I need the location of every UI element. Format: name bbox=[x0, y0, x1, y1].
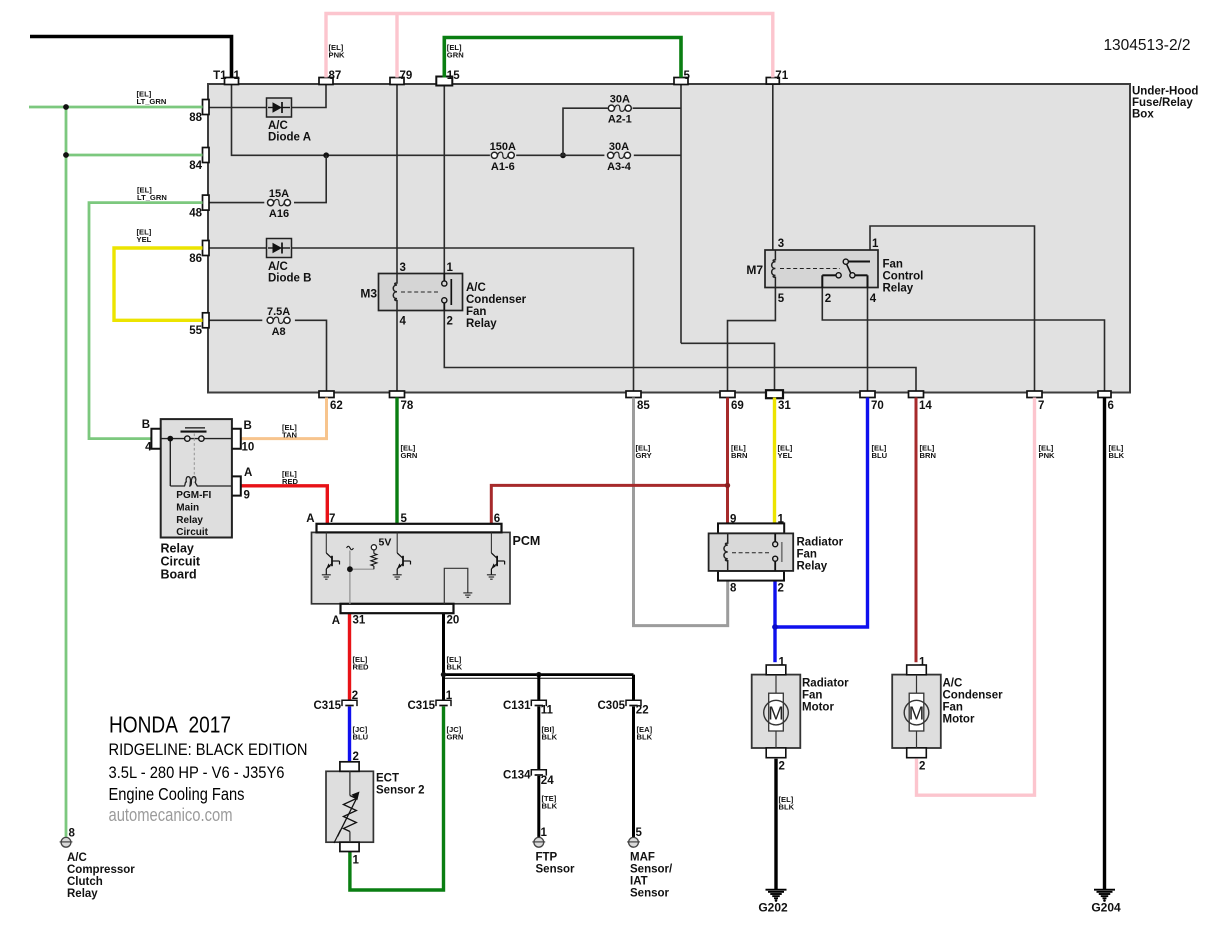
terminal B/10 of relay board bbox=[232, 429, 241, 449]
connector C305 bbox=[626, 700, 641, 706]
connector C131 bbox=[531, 700, 546, 706]
wire: terminal 15 down to relay M3 pin 1 bbox=[443, 85, 445, 274]
node: brown junction at (727.5,485.4) bbox=[725, 483, 730, 488]
wire: fuse A2-1 to pin-5 vertical bbox=[633, 107, 681, 109]
terminal 31 bbox=[766, 390, 783, 398]
svg-text:Sensor/: Sensor/ bbox=[630, 864, 673, 876]
connector C315 (ECT signal side) bbox=[342, 700, 357, 706]
wire: tan relay board pin 10 up to terminal 62 bbox=[241, 398, 327, 439]
wire: pink terminal 7 down to A/C condenser fan motor pin 2 bbox=[917, 398, 1035, 796]
svg-text:79: 79 bbox=[400, 70, 413, 82]
A/C Diode B bbox=[267, 239, 292, 258]
fuse A8 7.5A bbox=[267, 317, 273, 323]
svg-text:Fuse/Relay: Fuse/Relay bbox=[1132, 97, 1193, 109]
wire: black C305 down to MAF sensor bbox=[632, 707, 635, 838]
terminal 71 bbox=[766, 78, 779, 85]
svg-text:Engine Cooling Fans: Engine Cooling Fans bbox=[109, 784, 245, 804]
svg-text:Radiator: Radiator bbox=[797, 537, 844, 549]
wire: fuse A8 right and down to terminal 62 bbox=[295, 320, 327, 391]
svg-text:4: 4 bbox=[145, 442, 152, 454]
label A/C Compressor Clutch Relay bbox=[67, 852, 135, 900]
terminal ring: A/C Compressor Clutch Relay bbox=[61, 837, 71, 847]
wire: red PCM pin A31 down to connector C315 pin 2 bbox=[348, 614, 351, 701]
fuse A2-1 30A bbox=[608, 105, 614, 111]
svg-text:Relay: Relay bbox=[67, 888, 98, 900]
node: black junction at (443.5,674.6) bbox=[441, 672, 446, 677]
svg-text:automecanico.com: automecanico.com bbox=[109, 805, 233, 825]
node: light green junction at (66,107) bbox=[63, 104, 69, 110]
svg-text:5: 5 bbox=[778, 293, 785, 305]
svg-text:Board: Board bbox=[161, 568, 197, 582]
terminal 84 bbox=[203, 148, 210, 163]
svg-text:4: 4 bbox=[400, 316, 407, 328]
svg-text:C134: C134 bbox=[503, 770, 531, 782]
svg-text:Control: Control bbox=[883, 271, 924, 283]
terminal 6 bbox=[1098, 391, 1111, 398]
svg-text:1: 1 bbox=[446, 690, 453, 702]
terminal ring: FTP Sensor bbox=[534, 837, 544, 847]
svg-text:20: 20 bbox=[447, 615, 460, 627]
wire: brown PCM pin 6 up and right to node bbox=[491, 485, 727, 524]
label PGM-FI Main Relay Circuit bbox=[176, 490, 211, 538]
svg-text:2: 2 bbox=[778, 583, 784, 595]
svg-text:A/C: A/C bbox=[268, 261, 288, 273]
svg-text:Motor: Motor bbox=[802, 702, 834, 714]
svg-text:C131: C131 bbox=[503, 700, 531, 712]
svg-text:85: 85 bbox=[637, 400, 650, 412]
fuse A16 15A bbox=[268, 200, 274, 206]
svg-text:15: 15 bbox=[447, 70, 460, 82]
svg-text:T1: T1 bbox=[213, 70, 227, 82]
svg-text:Relay: Relay bbox=[466, 318, 497, 330]
connector C134 bbox=[531, 770, 546, 776]
wire: black C134 down to FTP sensor bbox=[537, 776, 540, 838]
svg-text:14: 14 bbox=[919, 400, 932, 412]
transistor Q3 inside PCM (pin 6 driver) bbox=[487, 532, 505, 579]
label Under-Hood Fuse/Relay Box bbox=[1132, 86, 1198, 121]
wire: junction down to fuse A16 bbox=[294, 155, 326, 202]
svg-text:FTP: FTP bbox=[536, 852, 558, 864]
terminal 5 bbox=[674, 78, 688, 85]
svg-text:YEL: YEL bbox=[778, 451, 793, 460]
terminal A/9 of relay board bbox=[232, 476, 241, 495]
svg-text:RED: RED bbox=[353, 663, 370, 672]
wire: red relay board pin 9 to PCM pin A7 bbox=[241, 486, 327, 524]
svg-text:Relay: Relay bbox=[797, 561, 828, 573]
terminal 79 bbox=[390, 78, 404, 85]
wire: green terminal 78 down to PCM pin 5 bbox=[395, 398, 398, 525]
terminal ring: MAF/IAT Sensor bbox=[629, 837, 639, 847]
svg-text:55: 55 bbox=[189, 325, 202, 337]
svg-text:BRN: BRN bbox=[920, 451, 936, 460]
terminal 69 bbox=[720, 391, 735, 398]
svg-text:1: 1 bbox=[919, 657, 926, 669]
svg-text:1: 1 bbox=[447, 262, 454, 274]
terminal 7 bbox=[1027, 391, 1042, 398]
svg-text:2: 2 bbox=[919, 761, 925, 773]
node: junction at (326,155) bbox=[323, 152, 329, 158]
terminal 62 bbox=[319, 391, 334, 398]
wire: pin 86 to A/C Diode B bbox=[208, 247, 267, 249]
wire: A/C Diode B cathode right and down to terminal 85 bbox=[292, 248, 634, 391]
svg-text:31: 31 bbox=[778, 400, 791, 412]
svg-text:70: 70 bbox=[871, 400, 884, 412]
svg-text:A2-1: A2-1 bbox=[608, 114, 632, 126]
wire: black branch down to C131 pin 11 bbox=[537, 675, 540, 700]
terminal T1/1 bbox=[225, 78, 239, 85]
svg-text:6: 6 bbox=[494, 513, 500, 525]
fuse A3-4 30A bbox=[608, 152, 614, 158]
wire: green terminal 15 to terminal 5 bbox=[444, 38, 681, 78]
svg-text:2: 2 bbox=[779, 761, 785, 773]
svg-text:5V: 5V bbox=[379, 537, 392, 549]
svg-text:BLK: BLK bbox=[1109, 451, 1125, 460]
svg-text:9: 9 bbox=[244, 490, 250, 502]
svg-text:Motor: Motor bbox=[943, 714, 975, 726]
svg-text:Relay: Relay bbox=[883, 283, 914, 295]
Radiator Fan Relay bbox=[709, 523, 794, 580]
label Radiator Fan Relay bbox=[797, 537, 844, 573]
svg-text:Compressor: Compressor bbox=[67, 864, 135, 876]
transistor Q2 inside PCM (pin 5 driver) bbox=[393, 532, 411, 579]
ECT Sensor 2 (variable resistor) bbox=[326, 762, 373, 852]
svg-text:2: 2 bbox=[825, 293, 831, 305]
svg-text:Relay: Relay bbox=[176, 515, 203, 526]
terminal 48 bbox=[203, 195, 210, 210]
svg-text:30A: 30A bbox=[610, 94, 630, 106]
svg-text:71: 71 bbox=[775, 70, 788, 82]
wire: relay M7 pin 1 up and over to terminal 7 bbox=[870, 226, 1035, 391]
svg-text:BLK: BLK bbox=[542, 733, 558, 742]
svg-text:A3-4: A3-4 bbox=[607, 161, 632, 173]
svg-text:PNK: PNK bbox=[1039, 451, 1056, 460]
wire: junction up to fuse A2-1 branch bbox=[563, 108, 608, 155]
wire: black ground bus to C131 and C305 bbox=[444, 673, 634, 676]
svg-text:A/C: A/C bbox=[943, 678, 963, 690]
svg-text:Diode A: Diode A bbox=[268, 132, 311, 144]
relay M3 A/C Condenser Fan Relay bbox=[379, 274, 463, 311]
svg-text:10: 10 bbox=[242, 442, 255, 454]
svg-text:Condenser: Condenser bbox=[466, 294, 527, 306]
svg-text:1: 1 bbox=[234, 70, 241, 82]
svg-text:Under-Hood: Under-Hood bbox=[1132, 86, 1198, 98]
title block HONDA 2017 bbox=[109, 712, 308, 826]
svg-text:Box: Box bbox=[1132, 109, 1154, 121]
wire: blue radiator fan relay pin 2 down to node bbox=[773, 581, 776, 627]
svg-text:C315: C315 bbox=[408, 700, 436, 712]
wire: brown terminal 14 down to A/C condenser fan motor pin 1 bbox=[915, 398, 918, 663]
transistor Q1 inside PCM (pin A7 driver) bbox=[322, 532, 340, 579]
wire: blue node down to radiator fan motor pin 1 bbox=[773, 627, 776, 662]
wire: y=343 over to terminal 31 bbox=[681, 343, 775, 391]
svg-text:RED: RED bbox=[282, 477, 299, 486]
svg-text:Sensor: Sensor bbox=[536, 864, 576, 876]
svg-text:Main: Main bbox=[176, 503, 199, 514]
wire: green C315 down and to ECT sensor pin 1 bbox=[350, 707, 444, 891]
terminal 88 bbox=[203, 100, 210, 115]
svg-text:1: 1 bbox=[541, 827, 548, 839]
PCM module bbox=[312, 524, 511, 613]
wire: black terminal 6 down to ground G204 bbox=[1103, 398, 1106, 890]
svg-text:GRY: GRY bbox=[636, 451, 652, 460]
svg-text:M: M bbox=[909, 703, 924, 724]
ground G204 bbox=[1091, 890, 1121, 915]
wire: yellow terminal 31 down to radiator fan relay pin 1 bbox=[773, 398, 776, 524]
wire: relay M3 pin 4 down to terminal 78 bbox=[396, 311, 398, 392]
svg-text:TAN: TAN bbox=[282, 431, 297, 440]
svg-text:6: 6 bbox=[1108, 400, 1114, 412]
svg-text:BLK: BLK bbox=[447, 663, 463, 672]
svg-text:1304513-2/2: 1304513-2/2 bbox=[1103, 37, 1190, 54]
label ECT Sensor 2 bbox=[376, 773, 425, 797]
label A/C Condenser Fan Relay bbox=[466, 282, 527, 330]
svg-text:7: 7 bbox=[329, 513, 335, 525]
svg-text:Fan: Fan bbox=[802, 690, 822, 702]
node: PCM sensor node bbox=[347, 566, 353, 572]
wire: black PCM pin 20 down to C315 pin 1 bbox=[442, 614, 445, 701]
svg-text:M3: M3 bbox=[360, 287, 377, 301]
wire: pin 88 to A/C Diode A anode bbox=[208, 107, 267, 109]
svg-text:BLU: BLU bbox=[872, 451, 888, 460]
terminal 87 bbox=[319, 78, 333, 85]
wire: relay M3 pin 2 right to terminal 14 bbox=[444, 311, 916, 392]
svg-text:5: 5 bbox=[684, 70, 691, 82]
wire: blue terminal 70 down and left to motor node bbox=[775, 398, 868, 628]
svg-text:5: 5 bbox=[401, 513, 408, 525]
terminal 86 bbox=[203, 241, 210, 256]
svg-text:Clutch: Clutch bbox=[67, 876, 103, 888]
ground G202 bbox=[758, 890, 788, 915]
svg-text:Sensor 2: Sensor 2 bbox=[376, 785, 425, 797]
node: relay board junction bbox=[167, 436, 173, 442]
svg-text:Fan: Fan bbox=[466, 306, 486, 318]
wire: black battery feed to terminal T1/1 bbox=[30, 37, 232, 78]
Under-Hood Fuse/Relay Box enclosure bbox=[208, 84, 1130, 393]
svg-text:84: 84 bbox=[189, 160, 202, 172]
terminal 70 bbox=[860, 391, 875, 398]
svg-text:1: 1 bbox=[872, 238, 879, 250]
svg-text:1: 1 bbox=[779, 657, 786, 669]
terminal 55 bbox=[203, 313, 210, 328]
node: blue junction at (775,627) bbox=[772, 624, 778, 630]
svg-text:31: 31 bbox=[353, 615, 366, 627]
terminal 15 bbox=[436, 77, 452, 86]
wire: relay M7 pin 2 to terminal 6 bbox=[822, 288, 1104, 392]
svg-text:C305: C305 bbox=[598, 700, 626, 712]
svg-text:ECT: ECT bbox=[376, 773, 399, 785]
svg-text:78: 78 bbox=[401, 400, 414, 412]
node: junction at (563,155) bbox=[560, 152, 566, 158]
node: black junction at (538.8,674.6) bbox=[536, 672, 541, 677]
motor: A/C Condenser Fan Motor bbox=[892, 657, 1003, 773]
svg-text:Fan: Fan bbox=[883, 259, 903, 271]
svg-text:PNK: PNK bbox=[329, 51, 346, 60]
svg-text:22: 22 bbox=[636, 705, 649, 717]
svg-text:A16: A16 bbox=[269, 208, 289, 220]
svg-text:1: 1 bbox=[778, 514, 785, 526]
svg-text:87: 87 bbox=[329, 70, 342, 82]
wire: fuse A1-6 to pin-5 drop, segment y=155 bbox=[516, 154, 604, 156]
wire: terminal 71 down to relay M7 pin 3 bbox=[772, 85, 774, 251]
svg-text:BRN: BRN bbox=[731, 451, 747, 460]
wire: light green feed to terminal 88 bbox=[29, 106, 203, 109]
svg-text:8: 8 bbox=[69, 828, 76, 840]
svg-text:A: A bbox=[244, 467, 252, 479]
wire: light green terminal 48 to relay circuit board pin 4 bbox=[89, 203, 203, 439]
wire: A/C Diode A cathode up to terminal 87 bbox=[292, 85, 327, 108]
svg-text:150A: 150A bbox=[490, 141, 516, 153]
svg-text:2: 2 bbox=[447, 316, 453, 328]
svg-text:15A: 15A bbox=[269, 188, 289, 200]
wire: pink branch down to terminal 79 bbox=[395, 14, 398, 78]
A/C Diode A bbox=[267, 98, 292, 117]
wire: pin 48 to fuse A16 bbox=[208, 202, 264, 204]
label Relay Circuit Board bbox=[161, 542, 201, 582]
svg-text:11: 11 bbox=[541, 705, 554, 717]
svg-text:Condenser: Condenser bbox=[943, 690, 1004, 702]
relay M7 Fan Control Relay bbox=[765, 250, 878, 288]
svg-text:A: A bbox=[306, 513, 314, 525]
svg-text:BLU: BLU bbox=[353, 733, 369, 742]
svg-text:3.5L - 280 HP - V6 - J35Y6: 3.5L - 280 HP - V6 - J35Y6 bbox=[109, 763, 285, 782]
svg-text:1: 1 bbox=[353, 855, 360, 867]
svg-text:2: 2 bbox=[353, 751, 359, 763]
svg-text:GRN: GRN bbox=[401, 451, 418, 460]
label MAF Sensor IAT Sensor bbox=[630, 852, 673, 900]
svg-text:BLK: BLK bbox=[542, 802, 558, 811]
wire: light green branch to terminal 84 bbox=[66, 154, 203, 157]
svg-text:MAF: MAF bbox=[630, 852, 655, 864]
svg-text:2: 2 bbox=[352, 690, 358, 702]
svg-text:GRN: GRN bbox=[447, 733, 464, 742]
wire: gray terminal 85 to radiator fan relay pin 8 bbox=[634, 398, 728, 626]
label Fan Control Relay bbox=[883, 259, 924, 295]
svg-text:88: 88 bbox=[189, 112, 202, 124]
svg-text:3: 3 bbox=[778, 238, 784, 250]
node: light green junction at (66,155) bbox=[63, 152, 69, 158]
svg-text:HONDA 2017: HONDA 2017 bbox=[109, 712, 231, 738]
label FTP Sensor bbox=[536, 852, 576, 876]
svg-text:86: 86 bbox=[189, 253, 202, 265]
svg-text:BLK: BLK bbox=[637, 733, 653, 742]
svg-text:5: 5 bbox=[636, 827, 643, 839]
svg-text:A: A bbox=[332, 615, 340, 627]
svg-text:Circuit: Circuit bbox=[161, 555, 201, 569]
svg-text:69: 69 bbox=[731, 400, 744, 412]
svg-text:Diode B: Diode B bbox=[268, 273, 311, 285]
wire: terminal 79 down to relay M3 pin 3 bbox=[396, 85, 398, 274]
terminal B/4 of relay board bbox=[151, 429, 160, 449]
svg-text:YEL: YEL bbox=[137, 235, 152, 244]
svg-text:24: 24 bbox=[541, 775, 554, 787]
wire: black C131 to C134 bbox=[537, 707, 540, 771]
wire: pin 55 to fuse A8 bbox=[208, 319, 262, 321]
svg-text:G204: G204 bbox=[1091, 901, 1121, 915]
svg-text:A/C: A/C bbox=[67, 852, 87, 864]
wire: terminal T1/1 down and right along y=155 to fuse A1-6 bbox=[232, 85, 490, 156]
connector C315 (ground side) bbox=[436, 700, 451, 706]
svg-text:M7: M7 bbox=[746, 263, 763, 277]
svg-text:PCM: PCM bbox=[513, 534, 541, 548]
svg-text:B: B bbox=[142, 419, 150, 431]
wire: yellow loop terminal 86 to terminal 55 bbox=[114, 248, 203, 320]
svg-text:Relay: Relay bbox=[161, 542, 194, 556]
svg-text:Sensor: Sensor bbox=[630, 888, 670, 900]
Relay Circuit Board (PGM-FI Main Relay Circuit) bbox=[161, 419, 232, 537]
svg-text:G202: G202 bbox=[758, 901, 788, 915]
wire: relay M7 pin 4 down to terminal 70 bbox=[867, 288, 869, 392]
terminal 78 bbox=[390, 391, 405, 398]
motor: Radiator Fan Motor bbox=[752, 657, 849, 773]
svg-text:A8: A8 bbox=[272, 326, 286, 338]
svg-text:A/C: A/C bbox=[268, 120, 288, 132]
wire: terminal 5 vertical down to y=343 bbox=[680, 85, 682, 344]
fuse A1-6 150A bbox=[491, 152, 497, 158]
svg-text:48: 48 bbox=[189, 208, 202, 220]
wire: brown terminal 69 down to radiator fan relay pin 9 bbox=[726, 398, 729, 524]
svg-text:3: 3 bbox=[400, 262, 406, 274]
terminal 14 bbox=[909, 391, 924, 398]
svg-text:C315: C315 bbox=[314, 700, 342, 712]
wire: light green bus down to A/C compressor clutch relay bbox=[65, 107, 68, 838]
PCM sensor input network with 5V pull-up bbox=[347, 545, 377, 604]
svg-text:Fan: Fan bbox=[943, 702, 963, 714]
svg-text:4: 4 bbox=[870, 293, 877, 305]
svg-text:7.5A: 7.5A bbox=[267, 306, 290, 318]
wire: blue C315 to ECT sensor pin 2 bbox=[348, 707, 351, 762]
svg-text:Radiator: Radiator bbox=[802, 678, 849, 690]
svg-text:A/C: A/C bbox=[466, 282, 486, 294]
svg-text:7: 7 bbox=[1038, 400, 1044, 412]
svg-text:B: B bbox=[244, 420, 252, 432]
svg-text:GRN: GRN bbox=[447, 51, 464, 60]
terminal 85 bbox=[626, 391, 641, 398]
svg-text:LT_GRN: LT_GRN bbox=[137, 193, 167, 202]
PCM internal ground leg at pin 20 bbox=[444, 568, 472, 604]
svg-text:IAT: IAT bbox=[630, 876, 648, 888]
wire: black branch down to C305 pin 22 bbox=[632, 675, 635, 700]
svg-text:Fan: Fan bbox=[797, 549, 817, 561]
svg-text:RIDGELINE: BLACK EDITION: RIDGELINE: BLACK EDITION bbox=[109, 740, 308, 759]
svg-text:Circuit: Circuit bbox=[176, 527, 208, 538]
wire: pink terminal 87 to terminal 71 via top bbox=[326, 14, 773, 78]
svg-text:A1-6: A1-6 bbox=[491, 161, 515, 173]
svg-text:M: M bbox=[768, 703, 783, 724]
svg-text:62: 62 bbox=[330, 400, 343, 412]
svg-text:8: 8 bbox=[730, 583, 737, 595]
svg-text:BLK: BLK bbox=[779, 803, 795, 812]
svg-text:30A: 30A bbox=[609, 141, 629, 153]
wire: relay M7 pin 5 to terminal 69 bbox=[728, 288, 776, 392]
svg-text:PGM-FI: PGM-FI bbox=[176, 490, 211, 501]
svg-text:LT_GRN: LT_GRN bbox=[137, 97, 167, 106]
wire: black radiator fan motor pin 2 down to ground G202 bbox=[774, 759, 777, 890]
svg-text:9: 9 bbox=[730, 514, 736, 526]
